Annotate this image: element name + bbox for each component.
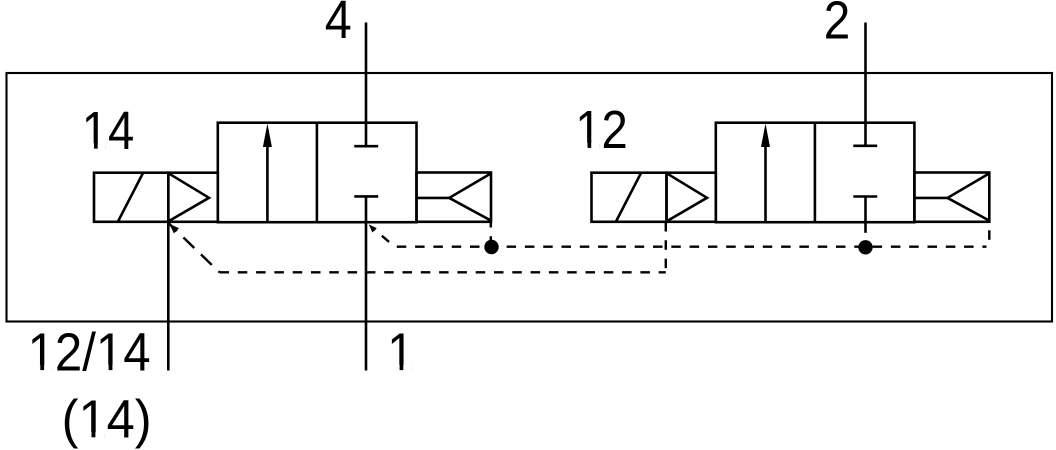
valve V2 pilot box — [667, 173, 716, 222]
valve V2 solenoid box — [592, 173, 667, 222]
valve V1 body division — [316, 123, 319, 223]
valve V2 bottom blocked port bar — [853, 195, 877, 198]
valve V2 return mid line — [914, 197, 947, 200]
internal duct dashed stub to V1 return — [490, 222, 492, 247]
svg-text:4: 4 — [325, 0, 352, 50]
valve V2 body division — [814, 123, 817, 223]
internal duct dashed horizontal run — [397, 245, 987, 247]
svg-text:1: 1 — [387, 322, 414, 382]
svg-text:14: 14 — [82, 101, 135, 161]
valve V1 bottom blocked port bar — [354, 195, 378, 198]
svg-text:2: 2 — [824, 0, 851, 50]
valve V1 return mid line — [417, 197, 450, 200]
svg-text:(14): (14) — [62, 390, 152, 450]
de-serif 12/14b — [99, 365, 121, 371]
valve V1 body — [218, 123, 417, 223]
valve V1 return triangle — [449, 174, 491, 221]
valve V1 flow arrow — [266, 130, 269, 222]
valve V1 top blocked port bar — [354, 145, 378, 148]
pilot signal dashed diagonal from 12/14 — [169, 224, 219, 272]
junction dot J2 — [858, 240, 872, 254]
valve V1 flow arrowhead — [263, 124, 272, 148]
pilot line arrowhead at valve V1 — [169, 224, 179, 234]
valve V2 spring-return box — [914, 173, 989, 222]
de-serif (14) — [81, 432, 104, 438]
valve V1 solenoid diagonal — [118, 173, 143, 222]
de-serif 1 — [390, 365, 412, 371]
de-serif 12/14a — [30, 365, 52, 371]
valve V1 solenoid box — [94, 173, 168, 222]
duct arrowhead at port 1 — [369, 224, 377, 232]
valve V1 port 4 line — [365, 23, 368, 147]
de-serif 12 — [578, 143, 599, 149]
valve V2 solenoid diagonal — [616, 173, 641, 222]
valve V1 port 1 line — [365, 196, 368, 370]
pilot signal dashed horizontal run — [220, 271, 666, 273]
junction dot J1 — [484, 240, 498, 254]
valve V1 pilot port 12/14 line — [167, 222, 170, 371]
valve V2 return triangle — [948, 174, 990, 221]
valve V1 spring-return box — [417, 173, 492, 222]
svg-text:12: 12 — [575, 100, 628, 160]
valve V2 body — [716, 123, 915, 223]
valve V2 top blocked port bar — [853, 145, 877, 148]
de-serif 14 — [84, 143, 105, 149]
internal duct dashed stub to V2 return — [988, 222, 990, 247]
valve V2 internal port 1 line — [864, 197, 867, 233]
valve V2 port 2 line — [864, 23, 867, 146]
valve V1 pilot box — [168, 173, 218, 222]
valve V2 flow arrow — [764, 130, 767, 222]
valve V2 pilot triangle — [668, 174, 707, 221]
svg-text:12/14: 12/14 — [28, 322, 151, 382]
pilot signal dashed riser to valve V2 — [665, 222, 667, 272]
valve V2 flow arrowhead — [761, 124, 770, 148]
valve V1 pilot triangle — [169, 174, 209, 221]
internal duct dashed diagonal from port 1 — [375, 230, 395, 247]
enclosure frame — [7, 73, 1053, 322]
